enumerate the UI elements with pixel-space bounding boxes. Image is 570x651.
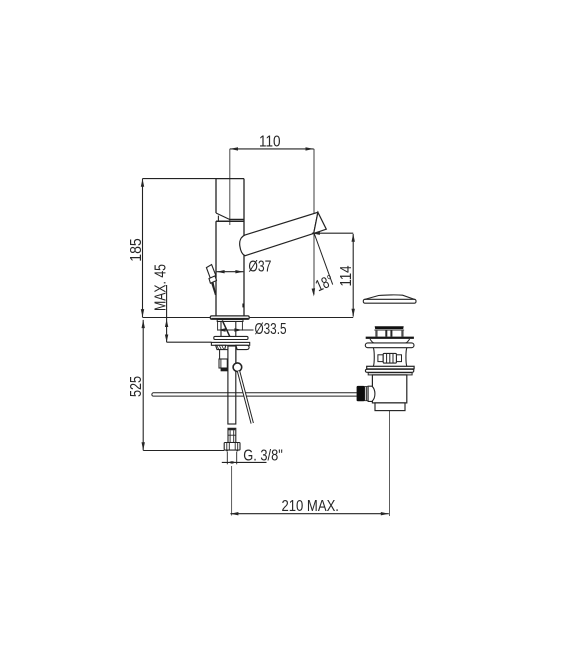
dimension 525 line [142,320,145,451]
drain thin washer band [368,373,412,375]
svg-text:114: 114 [338,265,355,286]
handle joint diagonal [216,213,229,219]
horizontal linkage rod [152,393,357,396]
pop-up rod vertical segment [235,345,237,363]
drain tailpiece [375,403,405,411]
svg-text:MAX. 45: MAX. 45 [153,264,170,311]
dimension 114 line [352,234,355,317]
525 bottom tick line [143,450,224,452]
small dark tick on right edge of body [242,304,244,308]
dimension MAX.45 line [165,285,168,342]
handle bottom edge [229,218,244,220]
pop-up rod ball joint [233,363,242,372]
horseshoe washer [214,336,248,339]
shank tube walls [220,322,222,337]
handle lever collar [209,276,217,283]
G3/8 nut [224,443,240,452]
pop-up rod lower diagonal [237,371,253,424]
drain plug dome cap [363,295,416,303]
drain spool side blocks [378,355,383,362]
dimension 110 line [230,147,314,150]
114 top connector with arrow at spout tip [312,232,353,235]
supply hose fitting lower [219,359,229,368]
under-plate washer bar [217,320,243,322]
G3/8 extension lines [226,452,228,465]
dimension D33.5 line [218,328,254,331]
dimension 210 MAX line [230,512,388,515]
supply hose fitting upper [220,350,229,359]
drain top flange [366,337,414,343]
mounting nut left wing (hatched) [216,345,226,349]
spout tube [240,212,318,255]
svg-text:18°: 18° [313,272,336,295]
drain plug seal under line [374,329,404,331]
svg-text:Ø33.5: Ø33.5 [255,321,287,338]
supply pipe [228,346,236,424]
handle joint small tick [217,216,219,221]
185 top tick line [143,178,217,180]
18deg arc arrow at bottom of vertical [312,288,316,296]
faucet center line [229,149,231,225]
G3/8 dimension arrows [222,461,267,464]
pop-up rod upper diagonal [222,320,230,336]
drain rod knob (black) [357,386,365,401]
drain lower flange [367,366,414,369]
G3/8 fitting [228,428,236,442]
base plate shadow line [211,318,248,320]
svg-text:110: 110 [259,133,281,150]
18deg axis diagonal [314,233,333,284]
svg-text:Ø37: Ø37 [248,258,271,275]
dimension 185 line [141,179,144,318]
dimension D37 line [217,270,244,273]
D33.5 extension lines [217,322,219,331]
faucet lower center line [231,466,233,516]
countertop reference line [143,317,354,319]
svg-text:185: 185 [128,238,145,262]
faucet body outline [216,179,244,316]
drain spool knurled block [383,353,396,363]
mounting nut bar [211,342,249,345]
spout aerator tip [314,212,327,233]
body ring line [216,220,244,222]
svg-text:G. 3/8": G. 3/8" [243,447,282,464]
handle lever paddle [206,265,216,279]
supply hose fitting cap [221,368,228,371]
drain body [372,375,406,403]
base plate [210,316,249,319]
mounting nut right wing [236,345,249,349]
drain plug black seal ring [375,326,404,329]
MAX.45 tick line [167,341,212,343]
drain knob clamp stripes [365,387,368,401]
svg-text:525: 525 [128,376,145,397]
drain center line [389,398,391,516]
extension line from 110 to spout tip / 18deg vertical [313,149,315,295]
drain knob D-piece [368,386,375,401]
drain lower band [365,369,413,372]
svg-text:210 MAX.: 210 MAX. [281,498,339,515]
handle lever tail [211,282,216,295]
drain spool walls [372,348,375,367]
drain gasket band [365,343,414,348]
drain plug stem [376,330,403,336]
